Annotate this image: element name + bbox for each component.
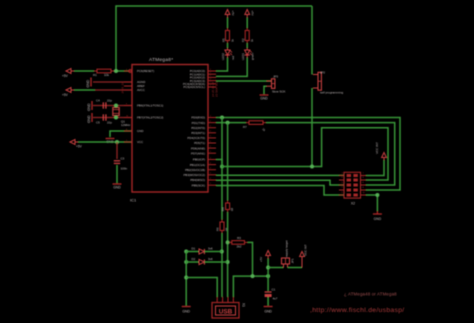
jumper JP2 self programming <box>313 74 318 76</box>
wire MOSI to X2 pin1 <box>216 174 344 176</box>
wire reset top run <box>116 6 312 71</box>
svg-text:23 SDA SCL: 23 SDA SCL <box>214 80 218 97</box>
pin X2 row 3 <box>339 184 344 186</box>
svg-text:red: red <box>231 56 235 60</box>
junction reset junction <box>114 69 118 73</box>
pin PC0(ADC0) <box>208 70 216 72</box>
svg-text:R3: R3 <box>237 236 241 240</box>
wire D+ vertical lower <box>221 233 223 297</box>
svg-text:C4: C4 <box>96 99 100 103</box>
svg-text:PD1(TXD): PD1(TXD) <box>192 121 205 125</box>
junction C1 rail junction <box>266 274 270 278</box>
wire LED1 mid wire <box>246 43 248 48</box>
wire D+ vertical upper <box>221 118 223 220</box>
junction D1 right junction <box>220 250 224 254</box>
wire H2 left <box>216 122 246 124</box>
wire gnd left vertical <box>185 252 187 306</box>
ground C3 gnd <box>113 183 122 185</box>
svg-text:VCC INT: VCC INT <box>304 244 308 256</box>
svg-text:+5V: +5V <box>251 11 255 16</box>
pin X1-2 <box>222 297 224 303</box>
pin PC4(ADC4/SDA) <box>208 83 216 85</box>
wire D1 left wire <box>186 251 199 253</box>
svg-text:supply target: supply target <box>285 240 289 257</box>
svg-text:PB7(XTAL2/TOSC2): PB7(XTAL2/TOSC2) <box>137 116 163 120</box>
wire XTAL1 wire <box>93 105 132 107</box>
wire LED2 to port pin <box>216 58 228 72</box>
junction xtal1 junction <box>114 104 118 108</box>
wire C3 gnd lead <box>116 165 118 183</box>
wire D2 left wire <box>186 261 199 263</box>
wire SCK to X2 pin9 <box>216 186 344 196</box>
capacitor C4 <box>102 102 104 108</box>
+5V supply +5V usb <box>266 251 271 256</box>
svg-text:68: 68 <box>230 207 234 211</box>
wire reset drop to JP3 <box>311 6 313 75</box>
svg-text:ATMega8*: ATMega8* <box>149 57 173 63</box>
wire XTAL2 wire <box>93 117 132 119</box>
wire to JP1 <box>268 267 283 269</box>
wire gnd stub <box>376 211 378 214</box>
svg-text:R2: R2 <box>241 38 245 42</box>
wire R3 to +5V rail <box>248 242 253 276</box>
pin PB6(XTAL1/TOSC1) <box>124 105 132 107</box>
svg-text:¿ ATMega48 or ATMega8: ¿ ATMega48 or ATMega8 <box>344 292 397 297</box>
jumper JP1 <box>283 264 285 268</box>
capacitor C5 <box>102 114 104 120</box>
pin PC1(ADC1) <box>208 73 216 75</box>
wire X2 pin2 to VCC INT <box>366 160 384 176</box>
svg-text:GND: GND <box>137 129 143 133</box>
pin PB4(MISO) <box>208 179 216 181</box>
pin X2 row 2 <box>339 179 344 181</box>
wire VCC wire <box>78 141 132 143</box>
resistor R6 <box>221 220 223 223</box>
svg-text:JP1: JP1 <box>291 258 295 263</box>
wire AVCC wire <box>95 89 132 91</box>
wire H1 to X2 pin8 <box>216 118 400 191</box>
ground xtal C top gnd <box>91 101 93 110</box>
junction xtal2 junction <box>114 116 118 120</box>
wire LED2 top wire <box>227 18 229 29</box>
junction R3 rail junction <box>251 274 255 278</box>
wire JP3 to ISP row <box>311 88 313 167</box>
wire D- vertical upper <box>227 123 229 201</box>
junction JP1 junction <box>266 266 270 270</box>
svg-text:PD4(XCK/T0): PD4(XCK/T0) <box>187 136 205 140</box>
svg-text:PB5(SCK): PB5(SCK) <box>192 183 205 187</box>
svg-text:JP2: JP2 <box>320 71 325 75</box>
pin X1-4 <box>232 297 234 303</box>
svg-text:PC5(ADC5/SCL): PC5(ADC5/SCL) <box>183 85 205 89</box>
resistor R7 <box>246 122 249 124</box>
pin VCC <box>124 141 132 143</box>
svg-text:+5V: +5V <box>62 93 69 97</box>
pin PB5(SCK) <box>208 184 216 186</box>
wire reset wire left <box>74 70 94 72</box>
pin AREF <box>124 85 132 87</box>
svg-text:+5V: +5V <box>259 257 263 262</box>
pin PC6(RESET) <box>124 70 132 72</box>
wire JP1 to VCC INT <box>288 267 303 269</box>
junction D2 left junction <box>184 260 188 264</box>
pin GND <box>124 130 132 132</box>
wire AGND wire <box>93 81 132 83</box>
svg-text:PD3(INT1): PD3(INT1) <box>191 131 205 135</box>
svg-text:+5V: +5V <box>62 74 69 78</box>
wire reset wire right <box>114 70 129 72</box>
pin PB1(OC1A) <box>208 164 216 166</box>
connector X2 (10-pin ISP) <box>344 172 361 198</box>
junction VCC junction <box>115 140 119 144</box>
supply VCC INT (connector) <box>382 153 387 158</box>
svg-text:GND: GND <box>86 79 90 87</box>
pin PC3(ADC3) <box>208 80 216 82</box>
svg-text:VCC INT: VCC INT <box>375 142 379 154</box>
resistor R1 <box>94 70 97 72</box>
LED LED1 <box>246 48 248 50</box>
svg-text:C3: C3 <box>121 157 125 161</box>
junction X2 gnd junction <box>375 193 379 197</box>
svg-text:GND: GND <box>87 115 91 123</box>
pin PD1(TXD) <box>208 122 216 124</box>
crystal Q1 <box>115 106 117 108</box>
svg-text:Slow SCK: Slow SCK <box>272 90 286 94</box>
+5V supply +5V AVCC <box>66 88 71 93</box>
svg-text:GND: GND <box>264 310 272 314</box>
USB body <box>212 303 239 319</box>
junction D1 left junction <box>184 250 188 254</box>
pin PB0(ICP) <box>208 159 216 161</box>
wire X2 pin10 to gnd <box>366 195 377 211</box>
junction W1 left junction <box>220 165 224 169</box>
svg-text:PD2(INT0): PD2(INT0) <box>191 126 205 130</box>
junction R3 junction <box>226 240 230 244</box>
ground JP3 gnd <box>260 94 269 96</box>
pin X1-3 <box>227 297 229 303</box>
svg-text:D2: D2 <box>192 257 196 261</box>
wire C3 lead <box>116 142 118 159</box>
ground IC gnd <box>106 138 115 140</box>
svg-text:LED1: LED1 <box>241 53 245 60</box>
wire +5V stem <box>267 259 269 277</box>
svg-text:VCC: VCC <box>137 140 143 144</box>
svg-text:22p: 22p <box>107 99 112 103</box>
LED LED2 <box>227 48 229 50</box>
wire GND pin wire <box>110 131 132 137</box>
jumper JP3 slow sck <box>267 80 272 82</box>
wire C1 top lead <box>267 276 269 291</box>
pin X2 row 5 <box>339 194 344 196</box>
svg-text:X1: X1 <box>242 303 246 307</box>
wire usb pin1 gnd wire <box>186 278 217 298</box>
svg-text:GND: GND <box>182 310 190 314</box>
pin PC2(ADC2) <box>208 76 216 78</box>
svg-text:3v6: 3v6 <box>208 257 213 261</box>
junction D2 right junction <box>226 260 230 264</box>
wire usb +5V wire <box>233 276 268 297</box>
wire W1 to X2 pin4 <box>222 128 388 180</box>
junction D- junction H2 <box>226 121 230 125</box>
resistor R2 <box>246 28 248 31</box>
pin AVCC <box>124 89 132 91</box>
pin PB7(XTAL2/TOSC2) <box>124 117 132 119</box>
svg-text:PD6(AIN0): PD6(AIN0) <box>191 146 205 150</box>
junction usb gnd junction <box>184 276 188 280</box>
svg-text:IC1: IC1 <box>130 198 137 203</box>
svg-text:AVCC: AVCC <box>137 88 145 92</box>
pin X1-1 <box>216 297 218 303</box>
wire C1 gnd lead <box>267 297 269 306</box>
ground X2 gnd <box>373 213 382 215</box>
capacitor C1 (polarized 4u7) <box>265 291 272 293</box>
junction D+ junction H1 <box>220 116 224 120</box>
ground xtal C bottom gnd <box>91 113 93 122</box>
resistor R4 <box>227 201 229 204</box>
svg-text:PB4(MISO): PB4(MISO) <box>190 178 205 182</box>
svg-text:PD7(AIN1): PD7(AIN1) <box>191 151 205 155</box>
svg-text:green: green <box>251 52 255 60</box>
supply VCC INT (JP1) <box>300 252 305 257</box>
svg-text:X2: X2 <box>351 202 355 206</box>
wire MISO to X2 pin5 <box>216 180 344 185</box>
pin PD2(INT0) <box>208 127 216 129</box>
svg-text:10k: 10k <box>104 73 109 77</box>
+5V supply +5V VCC <box>70 140 75 145</box>
svg-text:R6: R6 <box>216 227 220 231</box>
resistor R3 <box>229 241 232 243</box>
svg-text:PB1(OC1A): PB1(OC1A) <box>190 163 205 167</box>
pin PD0(RXD) <box>208 117 216 119</box>
capacitor C3 <box>114 160 120 162</box>
svg-text:D1: D1 <box>192 246 196 250</box>
+5V supply supply LED1 <box>245 10 250 15</box>
pin circle PC6/RESET <box>129 70 132 73</box>
wire PB0 stub down <box>216 160 222 167</box>
svg-text:2k2: 2k2 <box>237 245 242 249</box>
svg-text:100n: 100n <box>121 167 128 171</box>
pin PD7(AIN1) <box>208 152 216 154</box>
pin PB3(MOSI/OC2) <box>208 174 216 176</box>
wire JP3 to gnd <box>264 86 267 94</box>
svg-text:PD0(RXD): PD0(RXD) <box>191 116 205 120</box>
wire LED1 to port pin <box>216 58 247 77</box>
wire LED2 mid wire <box>227 43 229 48</box>
wire D2 right wire <box>204 261 227 263</box>
ground C1 gnd <box>264 306 273 308</box>
wire AVCC wire green <box>74 89 95 91</box>
svg-text:+5V: +5V <box>76 145 83 149</box>
svg-text:12MHz: 12MHz <box>121 123 131 127</box>
svg-text:R1: R1 <box>93 73 97 77</box>
svg-text:PB2(SS/OC1B): PB2(SS/OC1B) <box>185 168 205 172</box>
svg-text:PD5(T1): PD5(T1) <box>194 141 205 145</box>
+5V supply supply LED2 <box>225 10 230 15</box>
pin X2 row 4 <box>339 189 344 191</box>
svg-text:C1: C1 <box>272 288 276 292</box>
svg-text:GND: GND <box>260 97 268 101</box>
pin PD3(INT1) <box>208 132 216 134</box>
junction JP3 junction <box>310 165 314 169</box>
svg-text:R4: R4 <box>221 207 225 211</box>
ground AGND <box>90 78 92 87</box>
wire H2 right to X2 pin6 <box>266 123 395 185</box>
svg-text:R7: R7 <box>243 125 247 129</box>
pin PB2(SS/OC1B) <box>208 169 216 171</box>
wire D- vertical lower <box>227 212 229 297</box>
svg-text:JP3: JP3 <box>273 75 278 79</box>
pin PD6(AIN0) <box>208 147 216 149</box>
wire D1 right wire <box>204 251 222 253</box>
svg-text:PB3(MOSI/OC2): PB3(MOSI/OC2) <box>183 173 205 177</box>
svg-text:,http://www.fischl.de/usbasp/: ,http://www.fischl.de/usbasp/ <box>310 307 404 314</box>
svg-text:GND: GND <box>113 186 121 190</box>
svg-text:R5: R5 <box>221 38 225 42</box>
pin X2 row 1 <box>339 175 344 177</box>
svg-text:USB: USB <box>219 309 233 316</box>
svg-text:PC6(RESET): PC6(RESET) <box>137 69 154 73</box>
svg-text:PB0(ICP): PB0(ICP) <box>193 158 205 162</box>
resistor R5 <box>227 28 229 31</box>
svg-text:GND: GND <box>87 103 91 111</box>
pin AGND <box>124 81 132 83</box>
pin PC5(ADC5/SCL) <box>208 86 216 88</box>
wire LED1 top wire <box>246 18 248 29</box>
svg-text:+5V: +5V <box>231 11 235 16</box>
svg-text:GND: GND <box>374 217 382 221</box>
svg-text:self programming: self programming <box>320 91 344 95</box>
pin PD4(XCK/T0) <box>208 137 216 139</box>
svg-text:C5: C5 <box>96 121 100 125</box>
ground usb gnd left <box>182 306 191 308</box>
svg-text:22p: 22p <box>107 121 112 125</box>
svg-text:PB6(XTAL1/TOSC1): PB6(XTAL1/TOSC1) <box>137 104 163 108</box>
svg-text:3v6: 3v6 <box>208 246 213 250</box>
svg-text:4u7: 4u7 <box>273 297 278 301</box>
svg-text:LED2: LED2 <box>221 53 225 60</box>
+5V supply +5V reset <box>66 69 71 74</box>
wire PC3 to JP3 <box>216 80 272 82</box>
pin PD5(T1) <box>208 142 216 144</box>
